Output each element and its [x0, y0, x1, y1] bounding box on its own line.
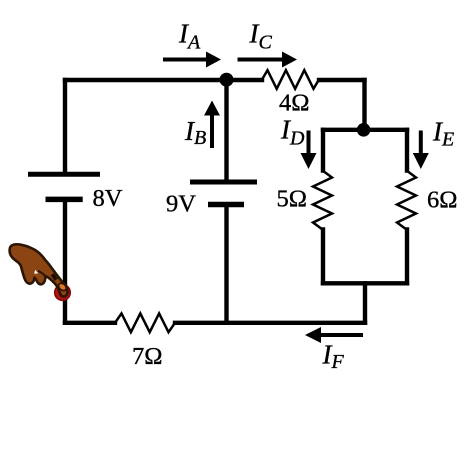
wire left parallel branch lower — [321, 230, 325, 284]
resistor R3 6ohm — [397, 171, 416, 230]
current arrow IE — [413, 131, 429, 170]
wire left vertical lower — [63, 202, 67, 323]
wire middle vertical lower — [224, 207, 228, 323]
battery B2 9V long plate — [190, 180, 257, 185]
current arrow IB — [204, 101, 220, 149]
svg-text:IB: IB — [184, 116, 206, 149]
resistor R2 5ohm — [313, 171, 332, 230]
wire bottom left segment — [65, 321, 115, 325]
svg-text:IE: IE — [432, 117, 454, 151]
current arrow IC — [238, 52, 298, 68]
svg-text:8V: 8V — [93, 185, 123, 212]
wire right vertical top — [362, 80, 366, 130]
hand knuckle crease — [38, 271, 46, 276]
wire stub down from parallel — [363, 283, 367, 323]
wire right parallel branch upper — [405, 130, 409, 171]
svg-text:IF: IF — [322, 340, 345, 374]
battery B1 8V long plate — [28, 172, 100, 177]
hand white knuckle gap — [34, 270, 38, 274]
wire node B horizontal bar — [323, 128, 407, 132]
wire top left horizontal — [65, 78, 262, 82]
wire left parallel branch upper — [321, 130, 325, 171]
wire middle vertical upper — [224, 80, 228, 180]
resistor R4 7ohm — [115, 313, 175, 332]
wire right parallel branch lower — [405, 230, 409, 284]
svg-text:7Ω: 7Ω — [132, 343, 162, 370]
svg-text:5Ω: 5Ω — [277, 186, 307, 213]
hand dark finger band — [51, 273, 58, 281]
current arrow IF — [305, 327, 363, 343]
node junction dot B — [357, 123, 371, 137]
hand pointer icon — [10, 244, 68, 296]
wire top right horizontal — [319, 78, 365, 82]
wire left vertical upper — [63, 80, 67, 172]
svg-text:IC: IC — [249, 19, 273, 54]
svg-text:4Ω: 4Ω — [279, 90, 309, 117]
resistor R1 4ohm — [262, 70, 319, 89]
battery B2 9V short plate — [208, 202, 244, 208]
current arrow IA — [163, 52, 221, 68]
wire bottom right segment — [175, 321, 365, 325]
wire parallel bottom bar — [323, 281, 407, 285]
svg-text:9V: 9V — [166, 191, 196, 218]
svg-text:6Ω: 6Ω — [427, 187, 457, 214]
battery B1 8V short plate — [46, 197, 83, 203]
svg-text:ID: ID — [280, 115, 305, 150]
node junction dot A — [220, 73, 234, 87]
hand orange fingernail — [57, 282, 68, 292]
svg-text:IA: IA — [178, 19, 201, 54]
node probe red dot — [55, 285, 71, 301]
current arrow ID — [301, 131, 317, 170]
